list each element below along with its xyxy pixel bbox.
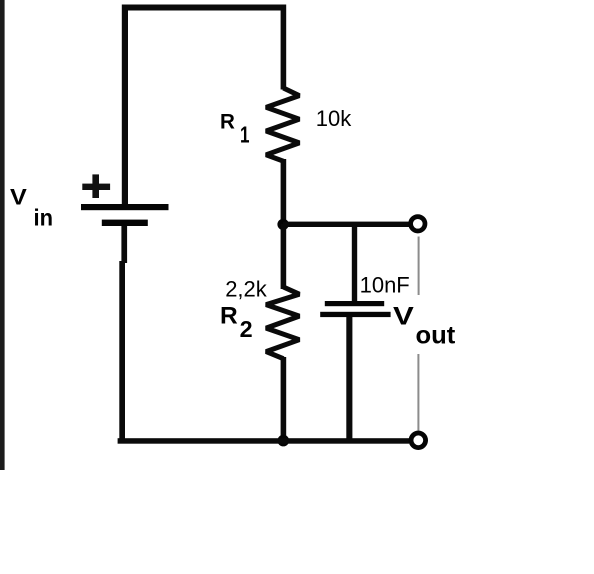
svg-text:R: R <box>220 303 238 330</box>
svg-text:10nF: 10nF <box>360 272 410 297</box>
wire bottom horizontal <box>118 438 410 444</box>
svg-text:in: in <box>34 204 54 230</box>
wire top horizontal <box>122 5 286 11</box>
wire capacitor bottom to bottom wire <box>346 317 352 442</box>
battery V1 <box>81 204 169 210</box>
Vout measurement line (gray) lower segment <box>417 354 419 431</box>
node A junction dot <box>277 219 288 230</box>
battery polarity + mark <box>82 184 110 190</box>
resistor R2 <box>266 287 299 359</box>
wire node A down to R2 <box>281 224 287 289</box>
terminal + (top output) <box>411 217 425 231</box>
wire left vertical lower (battery - to bottom wire) <box>121 226 127 263</box>
svg-text:10k: 10k <box>316 106 352 131</box>
capacitor C1 <box>325 301 384 306</box>
wire node A to output terminal <box>283 222 410 227</box>
node B junction dot <box>278 435 290 447</box>
svg-text:1: 1 <box>240 122 250 148</box>
wire R1 to node A <box>281 159 287 225</box>
svg-text:R: R <box>220 111 235 134</box>
svg-text:2: 2 <box>240 316 253 342</box>
wire right vertical (top wire to R1) <box>281 5 287 90</box>
svg-text:out: out <box>416 322 456 350</box>
Vout measurement line (gray) upper segment <box>418 237 420 296</box>
svg-text:2,2k: 2,2k <box>225 276 268 301</box>
wire left vertical upper (top wire to battery +) <box>122 5 128 206</box>
terminal - (bottom output) <box>411 433 426 448</box>
svg-text:V: V <box>10 185 27 210</box>
wire node A branch to capacitor top <box>352 226 357 302</box>
resistor R1 <box>266 88 299 161</box>
svg-text:V: V <box>393 303 414 331</box>
wire R2 to node B <box>281 357 287 442</box>
